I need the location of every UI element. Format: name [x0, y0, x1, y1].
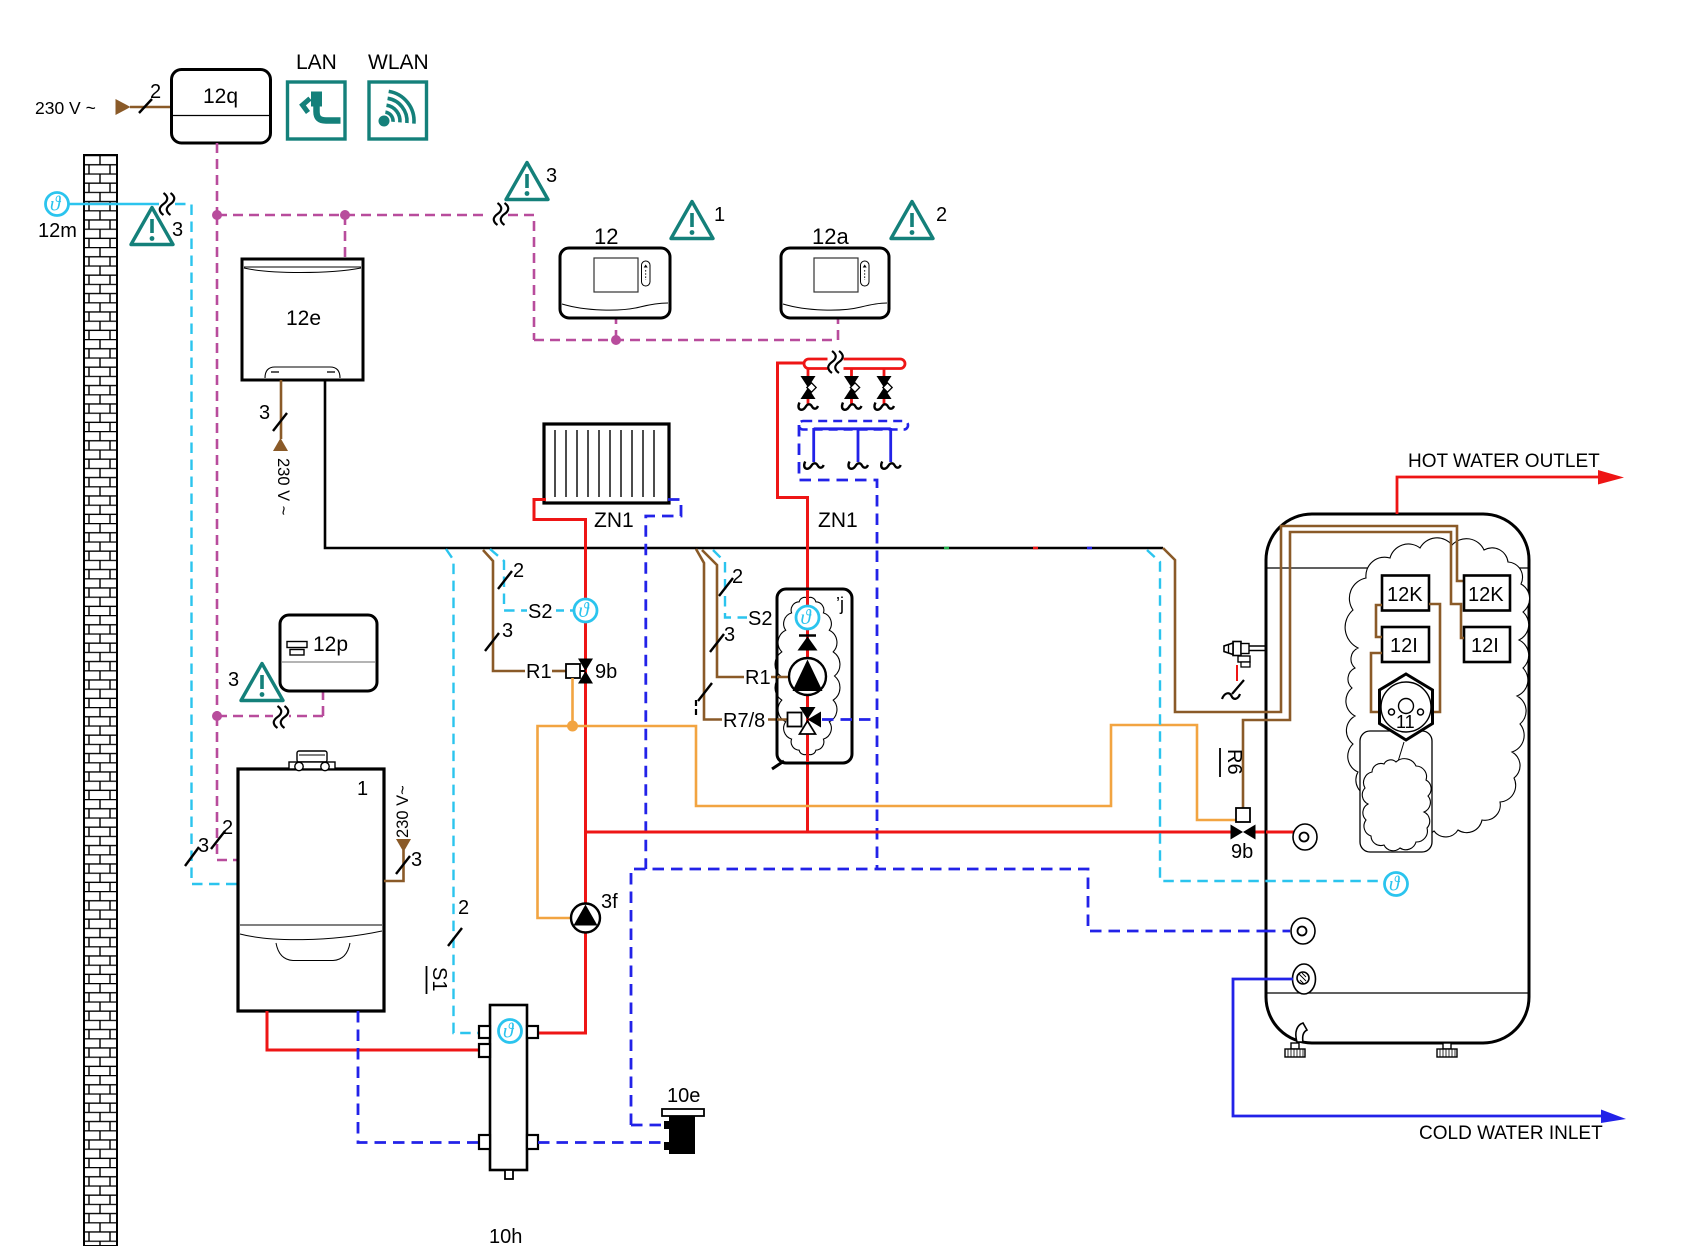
wire brown R1 zone2	[702, 550, 744, 677]
slash on R7/8 lead	[698, 683, 712, 701]
svg-text:2: 2	[732, 566, 743, 588]
wire brown 230V supply to boiler	[384, 850, 404, 881]
node eBUS junction at 12p	[212, 711, 222, 721]
manifold drop 2	[842, 368, 862, 410]
wire brown R7/8 mixer	[696, 549, 722, 720]
arrow 230V supply 12e	[273, 438, 288, 451]
valve 9b cylinder	[1231, 825, 1256, 840]
arrow cold water	[1601, 1110, 1626, 1124]
relay box 12K left	[1382, 576, 1429, 611]
wire crossing specks on bus	[944, 547, 949, 550]
warning triangle 3 (near 12m)	[131, 208, 173, 245]
wire brown 12K-12l left link	[1376, 605, 1382, 637]
slash 3 on R1 lead zone2	[710, 634, 724, 652]
svg-text:1: 1	[714, 204, 725, 226]
wire magenta eBUS from 12q down	[216, 143, 219, 215]
radiator ZN1	[544, 424, 669, 532]
svg-text:12p: 12p	[313, 633, 348, 656]
wire magenta eBUS to thermostat bus	[508, 215, 838, 340]
wire brown stubs into pump group	[777, 677, 789, 720]
svg-text:ZN1: ZN1	[594, 509, 634, 532]
svg-text:R6: R6	[1223, 749, 1245, 775]
wire magenta eBUS stub to 12e	[344, 215, 347, 259]
pipe blue dashed underfloor return	[799, 425, 877, 869]
slash 3 on 12e supply	[273, 413, 287, 431]
svg-text:12a: 12a	[812, 224, 849, 249]
svg-text:1: 1	[357, 778, 368, 800]
svg-text:12I: 12I	[1471, 635, 1499, 657]
node orange junction	[567, 721, 578, 732]
arrow hot water	[1598, 470, 1624, 485]
pipe blue dashed mixer branch	[822, 718, 877, 721]
svg-text:12q: 12q	[203, 85, 238, 108]
wire brown heater to 12K left	[1422, 604, 1440, 712]
wire cyan dashed S1 sensor	[446, 549, 479, 1033]
slash 2 on S1 lead	[448, 928, 462, 946]
svg-text:3: 3	[259, 402, 270, 424]
svg-text:10h: 10h	[489, 1226, 522, 1246]
sensor cylinder temperature	[1385, 872, 1408, 896]
svg-text:12K: 12K	[1468, 584, 1504, 606]
pipe red radiator flow	[534, 500, 586, 520]
manifold blue return capsule dashed	[799, 421, 908, 430]
svg-text:HOT WATER OUTLET: HOT WATER OUTLET	[1408, 451, 1600, 472]
svg-text:11: 11	[1396, 712, 1415, 732]
wire magenta eBUS down left side	[217, 215, 323, 860]
wire brown A bus to cylinder relay	[1163, 526, 1465, 712]
manifold return risers blue	[814, 428, 891, 462]
pipe red main flow to cylinder	[586, 831, 1232, 834]
wire cyan dashed S2 sensor zone2	[713, 550, 747, 618]
pump zone2	[789, 658, 826, 695]
sensor S1 in separator	[499, 1019, 522, 1043]
svg-text:10e: 10e	[667, 1085, 700, 1107]
node eBUS junction at 12q drop	[212, 210, 222, 220]
svg-text:COLD WATER INLET: COLD WATER INLET	[1419, 1123, 1603, 1144]
actuator square 9b cylinder	[1236, 808, 1250, 822]
wire brown R1 zone1	[483, 550, 525, 671]
svg-text:9b: 9b	[595, 661, 617, 683]
pipe red through pump group	[806, 590, 809, 762]
cloud insulation detail	[1345, 538, 1529, 837]
foot right	[1437, 1043, 1457, 1057]
slash 3 on sensor lead	[185, 847, 199, 866]
pipe blue dashed to 10e upper	[631, 1124, 664, 1127]
cylinder tank body	[1266, 514, 1529, 1043]
pipe red hot water outlet	[1397, 477, 1600, 514]
svg-text:S2: S2	[528, 601, 552, 623]
svg-text:2: 2	[458, 897, 469, 919]
svg-text:230 V ~: 230 V ~	[35, 98, 96, 118]
wire brown 12l left to heater	[1371, 653, 1390, 712]
warning triangle 1	[671, 202, 713, 239]
svg-text:230 V~: 230 V~	[394, 785, 412, 838]
valve 9b zone1	[578, 659, 593, 684]
small cloud heating element	[1362, 759, 1431, 851]
check valve zone2	[798, 636, 818, 651]
port circulation return	[1291, 918, 1315, 944]
svg-text:3f: 3f	[601, 891, 618, 913]
kink on sensor lead	[159, 193, 175, 216]
sensor S2 zone1	[574, 598, 597, 622]
wire black bus from 12e to cylinder	[325, 380, 1163, 548]
wire orange zone1 valve	[538, 678, 573, 918]
wire brown B jog to 12l right	[1243, 532, 1464, 808]
manifold drop 3	[874, 368, 894, 410]
warning triangle 3 (near 12p)	[241, 664, 283, 701]
svg-text:12K: 12K	[1387, 584, 1423, 606]
svg-text:3: 3	[228, 669, 239, 691]
thermostat 12a	[781, 224, 889, 318]
slash 2 on 230V wire	[139, 99, 152, 113]
svg-text:12I: 12I	[1390, 635, 1418, 657]
drain spout	[1296, 1023, 1307, 1042]
WLAN icon	[368, 51, 429, 139]
sensor 12m (outdoor temperature sensor)	[46, 192, 69, 216]
svg-text:12: 12	[594, 224, 618, 249]
foot left	[1285, 1043, 1305, 1057]
relay box 12l right	[1464, 627, 1510, 662]
pipe blue dashed overlay into cylinder port	[1264, 930, 1290, 933]
wire cyan outdoor sensor lead	[69, 203, 163, 205]
svg-text:WLAN: WLAN	[368, 51, 429, 74]
manifold drop 1	[798, 368, 818, 410]
pipe blue dashed return bus	[631, 869, 1290, 1125]
svg-text:2: 2	[222, 817, 233, 839]
pipe red zone 1 riser	[538, 518, 586, 1033]
boiler 1	[238, 751, 384, 1011]
port DHW flow	[1293, 824, 1317, 850]
pipe red underfloor feed	[778, 363, 808, 832]
actuator square 9b zone1	[566, 664, 580, 678]
LAN icon	[288, 51, 346, 139]
svg-text:12m: 12m	[38, 220, 77, 242]
mixing valve R7/8	[788, 707, 822, 734]
pipe blue dashed boiler return	[358, 1011, 479, 1143]
svg-text:R1: R1	[526, 661, 552, 683]
svg-text:3: 3	[546, 165, 557, 187]
thermostat 12	[560, 224, 670, 318]
pipe blue dashed separator to 10e	[538, 1141, 664, 1144]
slash 2 on S2 lead zone1	[498, 571, 512, 589]
hooks on return risers	[804, 462, 824, 469]
svg-text:S2: S2	[748, 608, 772, 630]
svg-text:3: 3	[411, 849, 422, 871]
box 12e (system control)	[242, 259, 363, 380]
svg-text:R7/8: R7/8	[723, 710, 765, 732]
kink on manifold	[828, 351, 844, 374]
svg-text:LAN: LAN	[296, 51, 337, 74]
svg-text:S1: S1	[428, 967, 450, 991]
warning triangle 2	[891, 202, 933, 239]
immersion heater 11 hexagon	[1380, 674, 1433, 740]
wire orange control bus to cylinder valve	[573, 725, 1237, 820]
wire magenta eBUS horizontal top	[217, 214, 489, 217]
relay box 12K right	[1464, 576, 1510, 611]
kink on eBUS top run	[493, 203, 509, 226]
arrow 230V supply boiler	[396, 839, 411, 852]
pipe blue cold water inlet	[1233, 979, 1602, 1116]
slash 3 on R1 lead zone1	[485, 633, 499, 651]
node eBUS junction at thermostat 12	[611, 335, 621, 345]
slash 2 on eBUS at boiler	[211, 831, 225, 849]
svg-text:3: 3	[502, 620, 513, 642]
svg-text:2: 2	[513, 560, 524, 582]
wire cyan dashed sensor lead to boiler	[175, 204, 238, 884]
sensor pocket 10e	[662, 1085, 704, 1154]
pipe red overlay into cylinder port	[1266, 831, 1294, 834]
pipe red boiler flow	[267, 1011, 479, 1050]
svg-text:3: 3	[172, 219, 183, 241]
svg-text:230 V ~: 230 V ~	[274, 458, 292, 515]
pump group box j	[772, 589, 852, 769]
kink on eBUS 12p run	[273, 706, 289, 729]
port cold water	[1293, 964, 1316, 994]
manifold red flow capsule	[804, 359, 905, 369]
box 12p	[280, 615, 377, 691]
svg-text:2: 2	[936, 204, 947, 226]
wire cyan dashed cylinder sensor	[1147, 550, 1383, 881]
node eBUS junction at 12e drop	[340, 210, 350, 220]
svg-text:2: 2	[150, 81, 161, 103]
leader line hexagon to bubble	[1396, 742, 1404, 768]
slash 3 on boiler supply	[396, 856, 410, 874]
warning triangle 3 (above eBUS kink)	[506, 163, 548, 200]
wire cyan dashed S2 sensor zone1	[490, 549, 527, 611]
svg-text:3: 3	[724, 624, 735, 646]
box 12q (internet gateway)	[172, 70, 271, 144]
detail bubble box	[1360, 731, 1432, 852]
svg-text:9b: 9b	[1231, 841, 1253, 863]
safety group on cylinder	[1222, 642, 1267, 700]
svg-text:ZN1: ZN1	[818, 509, 858, 532]
slash 2 on S2 lead zone2	[719, 578, 733, 596]
arrow 230V supply	[116, 99, 131, 115]
svg-text:12e: 12e	[286, 307, 321, 330]
relay box 12l left	[1382, 627, 1429, 662]
separator 10h (low loss header)	[479, 1005, 538, 1246]
svg-text:3: 3	[198, 835, 209, 857]
svg-text:R1: R1	[745, 667, 771, 689]
wire brown 230V to 12q	[130, 106, 171, 109]
sensor S2 zone2 (in pump group)	[796, 605, 819, 629]
pump 3f	[571, 891, 618, 933]
wall (brick)	[84, 155, 117, 1246]
svg-text:’j: ’j	[836, 594, 844, 614]
wire brown 230V supply to 12e	[280, 380, 283, 439]
pipe blue dashed radiator return	[646, 500, 681, 870]
